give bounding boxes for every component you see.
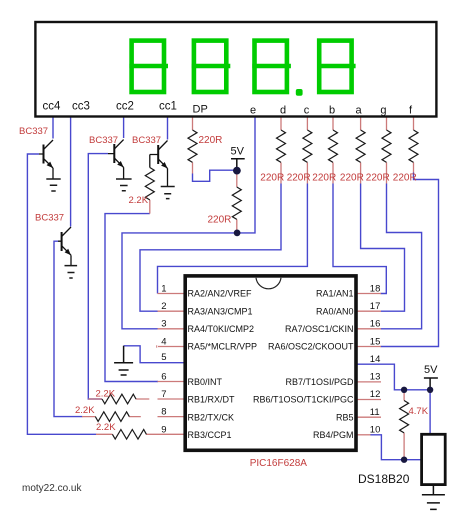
svg-text:RA5/*MCLR/VPP: RA5/*MCLR/VPP (188, 342, 258, 352)
wire cc2 to Q2 collector (123, 118, 125, 139)
pin stub 4 RA5 (158, 346, 185, 348)
svg-text:2.2K: 2.2K (96, 422, 116, 433)
COMPONENT VALUE LABELS (19, 126, 429, 469)
svg-text:220R: 220R (260, 173, 284, 184)
DISPLAY MODULE (35, 22, 436, 117)
resistor 220R (DP) (188, 130, 197, 162)
transistor Q3 BC337 (cc1) (150, 141, 168, 187)
ground (Q1 emitter) (46, 179, 60, 191)
7seg digit 4 (317, 41, 356, 92)
resistor 220R (f) (409, 130, 418, 162)
pin stub 8 RB2 + R8 leads (82, 416, 185, 418)
lead below R DP (192, 163, 194, 174)
svg-text:220R: 220R (340, 173, 364, 184)
lead below R d (280, 163, 282, 184)
svg-text:RB5: RB5 (336, 412, 354, 422)
svg-text:13: 13 (370, 372, 381, 383)
node A junction dot (5V rail) (233, 167, 241, 175)
svg-text:e: e (250, 105, 256, 117)
wire segment c to RA2 pin1 (158, 184, 308, 294)
svg-text:RA2/AN2/VREF: RA2/AN2/VREF (188, 289, 253, 299)
5V supply symbol (node A) (231, 159, 245, 170)
svg-text:RB7/T1OSI/PGD: RB7/T1OSI/PGD (285, 377, 354, 387)
JUNCTION DOTS (233, 167, 433, 463)
svg-text:12: 12 (370, 389, 381, 400)
svg-text:RA6/OSC2/CKOOUT: RA6/OSC2/CKOOUT (268, 342, 354, 352)
pin stub 13 RB7 (357, 381, 382, 383)
svg-text:f: f (409, 105, 413, 117)
svg-text:220R: 220R (287, 173, 311, 184)
GROUNDS (46, 179, 445, 509)
svg-text:220R: 220R (199, 135, 223, 146)
pin stub 11 RB5 (357, 416, 382, 418)
svg-text:RA7/OSC1/CKIN: RA7/OSC1/CKIN (285, 324, 354, 334)
svg-text:2.2K: 2.2K (96, 389, 116, 400)
svg-text:DP: DP (193, 104, 208, 116)
svg-text:moty22.co.uk: moty22.co.uk (22, 483, 82, 494)
junction dot 4.7K top (401, 387, 407, 393)
junction dot 4.7K bottom (DQ) (401, 457, 407, 463)
svg-text:5V: 5V (231, 146, 245, 158)
DS18B20 body (422, 434, 446, 484)
transistor Q4 BC337 (cc3) (58, 227, 71, 266)
resistor 2.2K (pin9) (112, 429, 146, 439)
resistor 220R (a) (356, 130, 365, 162)
svg-text:16: 16 (370, 319, 381, 330)
pin stub 7 RB1 + R7 leads (88, 398, 184, 400)
svg-text:cc1: cc1 (159, 101, 177, 113)
CHIP PIN NAMES (188, 289, 354, 440)
wire VSS pin5 to ground (124, 346, 184, 363)
svg-text:220R: 220R (366, 173, 390, 184)
lead below R g (386, 163, 388, 184)
svg-text:7: 7 (161, 389, 166, 400)
resistor 220R pullup (e net) (232, 187, 241, 219)
svg-text:RA3/AN3/CMP1: RA3/AN3/CMP1 (188, 306, 253, 316)
svg-text:RB6/T1OSO/T1CKI/PGC: RB6/T1OSO/T1CKI/PGC (253, 395, 354, 405)
wire cc3 to Q4 collector (70, 118, 72, 227)
7seg digit 2 (192, 41, 231, 92)
wire segment a to RA0 pin17 (361, 184, 405, 312)
svg-text:RA4/T0KI/CMP2: RA4/T0KI/CMP2 (188, 324, 255, 334)
5V LABELS (231, 146, 439, 377)
svg-text:3: 3 (161, 319, 166, 330)
ground (Q4 emitter) (65, 266, 78, 278)
7seg digit 1 (129, 41, 168, 92)
resistor 220R (d) (277, 130, 286, 162)
pin stub segment c (306, 118, 308, 131)
svg-text:17: 17 (370, 301, 381, 312)
resistor 220R (c) (303, 130, 312, 162)
svg-text:2: 2 (161, 301, 166, 312)
pin stub DP (192, 118, 194, 131)
resistor 2.2K (Q3 base) (145, 168, 154, 200)
wire RB4 pin10 to DS18B20 DQ (370, 435, 421, 460)
pin stub 12 RB6 (357, 399, 382, 401)
node B junction dot (e net) (234, 230, 241, 237)
DS18B20 SENSOR (358, 434, 445, 486)
svg-text:RA1/AN1: RA1/AN1 (316, 289, 354, 299)
wire segment b to RA1 pin18 (333, 184, 386, 294)
svg-text:cc4: cc4 (43, 101, 62, 113)
svg-text:5: 5 (161, 352, 166, 363)
chip notch (256, 278, 281, 289)
svg-text:d: d (280, 105, 286, 117)
wire segment e from display to node B then RA4 pin3 (122, 118, 255, 329)
RED PIN STUBS AND LEADS (82, 118, 414, 460)
svg-text:4.7K: 4.7K (409, 406, 429, 417)
leads of R 220R pullup at 5V node A to node B (236, 170, 238, 233)
svg-text:5V: 5V (424, 364, 438, 376)
resistor 220R (b) (329, 130, 338, 162)
display module box (35, 22, 436, 117)
svg-text:2.2K: 2.2K (129, 195, 149, 206)
wire segment f to RA6 pin15 (381, 173, 439, 347)
wire Q2 base to R7 (2.2K) (88, 154, 108, 399)
ground (pin5 VSS) (114, 346, 133, 375)
svg-text:cc3: cc3 (72, 101, 90, 113)
pin stub 18 RA1 (357, 293, 382, 295)
pin stub segment b (332, 118, 334, 131)
lead below R f (413, 163, 415, 173)
pin stub 17 RA0 (357, 310, 382, 312)
svg-text:RB1/RX/DT: RB1/RX/DT (188, 395, 236, 405)
decimal point dot (296, 89, 303, 96)
chip U1 body (185, 276, 356, 450)
TRANSISTORS (39, 140, 168, 266)
lead below R a (360, 163, 362, 184)
svg-text:220R: 220R (312, 173, 336, 184)
wire 5V to DS18B20 VDD (429, 390, 431, 434)
PIN NUMBERS (161, 283, 380, 435)
svg-text:220R: 220R (393, 173, 417, 184)
svg-text:RB3/CCP1: RB3/CCP1 (188, 430, 232, 440)
transistor Q1 BC337 (cc4) (39, 140, 53, 179)
svg-text:220R: 220R (208, 214, 232, 225)
PIC16F628A CHIP (185, 276, 356, 450)
leads 4.7K (403, 390, 405, 460)
ground (DS18B20) (422, 486, 445, 509)
transistor Q2 BC337 (cc2) (108, 140, 124, 179)
DISPLAY LABELS (43, 101, 413, 117)
wire VDD pin14 to 5V node (357, 364, 431, 390)
pin stub 15 RA6 (357, 346, 382, 348)
ground (Q3 emitter) (161, 187, 175, 199)
svg-text:8: 8 (161, 407, 166, 418)
5V supply symbol (DS18B20) (424, 378, 438, 390)
7seg digit 3 (252, 41, 291, 92)
wire Q4 base to R8 (2.2K) (54, 241, 82, 416)
wire Q3 2.2K to RB0 pin6 (105, 214, 158, 382)
svg-text:RA0/AN0: RA0/AN0 (316, 306, 354, 316)
svg-text:BC337: BC337 (19, 126, 48, 137)
pin stub 3 RA4 (158, 328, 185, 330)
pin stub 16 RA7 (357, 328, 382, 330)
wire segment d to RA3 pin2 (140, 184, 281, 312)
svg-text:RB2/TX/CK: RB2/TX/CK (188, 412, 235, 422)
resistor 2.2K (pin7) (102, 394, 136, 404)
svg-text:b: b (329, 105, 335, 117)
svg-text:BC337: BC337 (35, 213, 64, 224)
5V SUPPLY SYMBOLS (231, 159, 438, 390)
svg-text:g: g (380, 105, 386, 117)
pin stub segment a (360, 118, 362, 131)
svg-text:6: 6 (161, 371, 166, 382)
pin stub 9 RB3 + R9 leads (96, 433, 185, 435)
svg-text:14: 14 (370, 354, 381, 365)
pin stub 10 RB4 (357, 434, 371, 436)
pin stub segment g (386, 118, 388, 131)
resistor 220R (g) (382, 130, 391, 162)
wire cc4 to Q1 collector (52, 118, 54, 139)
svg-text:15: 15 (370, 336, 381, 347)
lead below R b (332, 163, 334, 184)
svg-text:BC337: BC337 (132, 135, 161, 146)
resistor 4.7K (400, 401, 409, 433)
svg-text:PIC16F628A: PIC16F628A (250, 458, 308, 469)
svg-text:2.2K: 2.2K (75, 405, 95, 416)
RESISTORS (95, 130, 418, 439)
pin stub 6 RB0 (158, 381, 185, 383)
wire DP resistor jog to 5V node A (193, 170, 235, 181)
pin stub 1 RA2 (158, 293, 185, 295)
svg-text:RB4/PGM: RB4/PGM (313, 430, 354, 440)
wire segment g to RA7 pin16 (381, 184, 422, 329)
pin stub segment d (280, 118, 282, 131)
ground (Q2 emitter) (116, 179, 132, 191)
svg-text:c: c (304, 105, 310, 117)
pin stub 2 RA3 (158, 310, 185, 312)
svg-text:DS18B20: DS18B20 (358, 472, 410, 486)
resistor 2.2K (pin8) (95, 412, 129, 422)
svg-text:RB0/INT: RB0/INT (188, 377, 223, 387)
pin stub segment f (413, 118, 415, 131)
svg-text:1: 1 (161, 283, 166, 294)
lead Q3 base to 2.2K (149, 200, 151, 214)
wire cc1 to Q3 collector (167, 118, 169, 140)
svg-text:18: 18 (370, 283, 381, 294)
junction dot 5V column (427, 387, 433, 393)
svg-text:BC337: BC337 (89, 135, 118, 146)
lead below R c (306, 163, 308, 184)
svg-text:cc2: cc2 (116, 101, 134, 113)
wire Q1 base to R9 (2.2K) (27, 154, 96, 434)
svg-text:9: 9 (161, 424, 166, 435)
svg-text:11: 11 (370, 407, 380, 418)
svg-text:a: a (355, 105, 362, 117)
svg-text:10: 10 (370, 425, 381, 436)
svg-text:4: 4 (161, 336, 166, 347)
